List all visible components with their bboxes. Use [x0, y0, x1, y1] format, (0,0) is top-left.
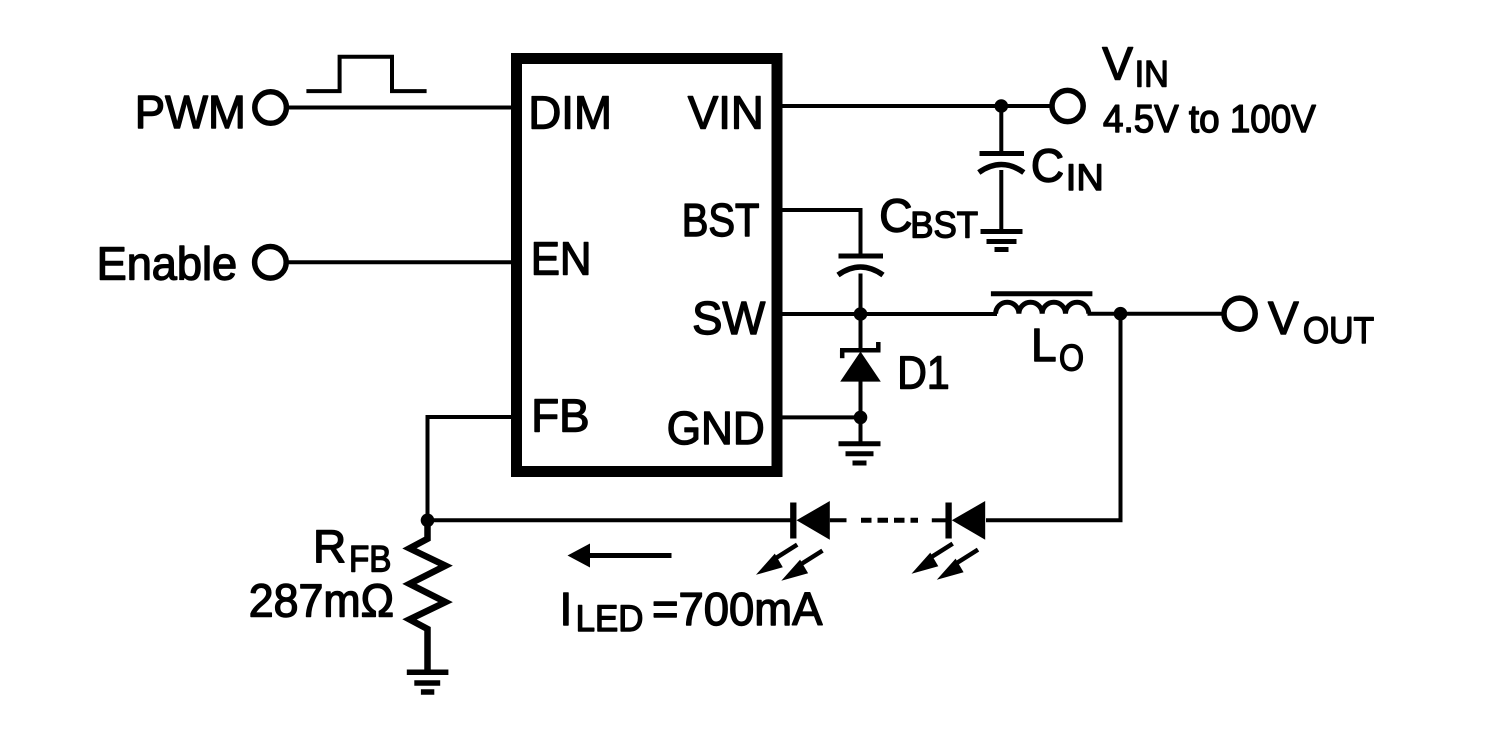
- svg-text:C: C: [879, 189, 912, 241]
- svg-text:L: L: [1031, 319, 1057, 371]
- svg-text:IN: IN: [1135, 54, 1169, 95]
- label RFB: [313, 520, 391, 579]
- node GND junction: [854, 411, 868, 425]
- inductor LO: [991, 294, 1093, 314]
- label PWM: [135, 86, 246, 138]
- current arrow ILED: [568, 544, 672, 568]
- wire VIN pin: [777, 104, 1051, 108]
- svg-text:LED: LED: [576, 598, 644, 639]
- svg-text:EN: EN: [531, 233, 592, 285]
- wire VOUT down to LED string: [986, 314, 1123, 521]
- capacitor CIN: [979, 106, 1024, 230]
- label CBST: [879, 189, 978, 245]
- terminal VOUT: [1224, 298, 1255, 329]
- pin label VIN: [688, 87, 764, 139]
- label CIN: [1031, 139, 1104, 198]
- resistor RFB: [410, 516, 446, 670]
- PWM pulse waveform: [306, 57, 426, 91]
- wire FB pin: [428, 415, 518, 521]
- wire SW to VOUT: [1088, 312, 1225, 316]
- pin label SW: [692, 292, 766, 344]
- label LO: [1031, 319, 1084, 379]
- wire GND pin: [777, 415, 861, 419]
- node FB junction: [421, 514, 435, 528]
- IC U1 body: [517, 59, 778, 472]
- capacitor CBST: [838, 256, 883, 316]
- svg-text:FB: FB: [531, 390, 589, 442]
- label D1: [897, 346, 949, 398]
- svg-text:V: V: [1268, 292, 1299, 344]
- svg-text:C: C: [1031, 139, 1064, 191]
- svg-text:BST: BST: [910, 205, 978, 246]
- wire SW pin: [777, 312, 997, 316]
- svg-text:PWM: PWM: [135, 86, 246, 138]
- terminal PWM: [255, 92, 287, 124]
- svg-text:GND: GND: [667, 402, 765, 454]
- svg-text:FB: FB: [349, 538, 391, 579]
- svg-text:IN: IN: [1066, 157, 1104, 198]
- LED2: [949, 501, 986, 540]
- svg-text:O: O: [1059, 338, 1084, 379]
- diode D1 (Schottky): [840, 314, 881, 419]
- svg-text:OUT: OUT: [1303, 310, 1374, 351]
- svg-text:R: R: [313, 520, 346, 572]
- pin label EN: [531, 233, 592, 285]
- svg-text:4.5V to 100V: 4.5V to 100V: [1103, 98, 1316, 141]
- label Enable: [97, 238, 238, 290]
- pin label BST: [682, 194, 760, 246]
- node VOUT junction: [1114, 307, 1128, 321]
- wire D1 node to ground: [859, 417, 863, 443]
- pin label FB: [531, 390, 589, 442]
- svg-text:VIN: VIN: [688, 87, 764, 139]
- LED1: [793, 501, 846, 540]
- label ILED = 700mA: [560, 583, 823, 639]
- terminal Enable: [255, 246, 287, 278]
- svg-text:Enable: Enable: [97, 238, 238, 290]
- svg-text:I: I: [560, 583, 573, 635]
- wire BST pin: [777, 208, 861, 254]
- label 4.5V to 100V: [1103, 98, 1316, 141]
- label VOUT: [1268, 292, 1374, 351]
- svg-text:=700mA: =700mA: [652, 583, 823, 635]
- ground RFB: [407, 672, 449, 692]
- label VIN: [1102, 38, 1168, 95]
- LED2 emission arrows: [912, 544, 979, 580]
- terminal VIN: [1052, 90, 1083, 121]
- node VIN junction: [995, 99, 1009, 113]
- svg-text:V: V: [1102, 38, 1133, 90]
- svg-text:287mΩ: 287mΩ: [249, 575, 394, 627]
- svg-text:D1: D1: [897, 346, 949, 398]
- ground D1: [839, 444, 881, 463]
- svg-text:SW: SW: [692, 292, 766, 344]
- wire dashed LED chain: [861, 518, 946, 523]
- label 287mOhm: [249, 575, 394, 627]
- pin label GND: [667, 402, 765, 454]
- wire DIM pin: [286, 106, 517, 110]
- wire FB node to LED1: [428, 518, 792, 522]
- svg-text:BST: BST: [682, 194, 760, 246]
- svg-text:DIM: DIM: [528, 87, 612, 139]
- LED1 emission arrows: [756, 545, 823, 581]
- node SW junction: [854, 307, 868, 321]
- pin label DIM: [528, 87, 612, 139]
- wire EN pin: [286, 260, 517, 264]
- ground CIN: [981, 232, 1023, 250]
